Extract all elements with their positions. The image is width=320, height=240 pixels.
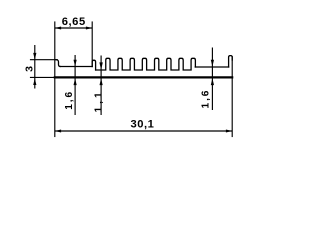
svg-text:1,6: 1,6 [64, 90, 75, 110]
arrowhead 30,1 right [226, 130, 232, 133]
profile step down into channel [56, 60, 60, 67]
arrowhead 6,65 left [55, 27, 61, 30]
svg-text:30,1: 30,1 [130, 118, 154, 130]
extension line right (30,1) + profile right edge [231, 57, 233, 137]
svg-text:1,6: 1,6 [200, 89, 211, 109]
profile channel right wall bump [92, 60, 95, 70]
arrowhead 1,1 up [100, 78, 103, 85]
extension line (3 bottom) [31, 76, 55, 78]
arrowhead 3 top [33, 53, 36, 60]
dimension line 6,65 [55, 27, 92, 29]
svg-text:3: 3 [24, 66, 36, 72]
profile channel floor [60, 66, 92, 68]
profile right end bump [229, 56, 233, 67]
profile right flat shelf [195, 66, 228, 68]
dimension line 1,1 [100, 56, 102, 116]
arrowhead 1,6 right down [211, 60, 214, 67]
svg-text:1,1: 1,1 [93, 89, 104, 112]
dimension line 1,6 left [74, 55, 76, 115]
profile bottom face (thick) [55, 76, 232, 78]
arrowhead 3 bottom [33, 78, 36, 85]
dimension line 30,1 [55, 130, 232, 132]
arrowhead 1,6 right up [211, 78, 214, 85]
profile top surface + extension line (3 top) [31, 59, 58, 61]
arrowhead 1,6 left down [74, 60, 77, 67]
arrowhead 1,1 down [99, 62, 102, 70]
arrowhead 1,6 left up [74, 78, 77, 85]
svg-text:6,65: 6,65 [62, 16, 86, 28]
extension line left (6,65 / 30,1) + profile left edge [54, 22, 56, 137]
arrowhead 6,65 right [86, 27, 92, 30]
arrowhead 30,1 left [55, 130, 61, 133]
dimension line 1,6 right [211, 48, 213, 111]
extension line (6,65 right) merging into channel wall [91, 22, 93, 67]
profile fins (8) with valleys [96, 58, 196, 70]
dimension line 3 [34, 45, 36, 89]
